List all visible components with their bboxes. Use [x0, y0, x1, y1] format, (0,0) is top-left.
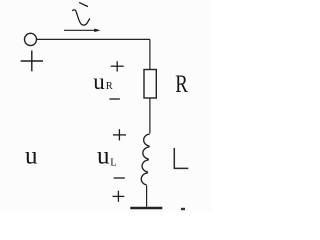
resistor R	[144, 70, 156, 99]
svg-text:u: u	[93, 69, 105, 94]
current direction arrow	[64, 29, 96, 31]
svg-text:u: u	[25, 143, 38, 170]
wire right vertical to resistor	[149, 39, 151, 69]
inductor L coil	[141, 134, 149, 185]
svg-text:u: u	[97, 143, 110, 170]
svg-text:R: R	[175, 69, 188, 97]
wire top horizontal	[37, 38, 150, 40]
source plus polarity	[21, 51, 43, 72]
source terminal circle	[25, 33, 37, 45]
stray mark bottom right	[181, 208, 185, 210]
svg-text:L: L	[110, 157, 116, 168]
plus above uL	[113, 129, 126, 140]
minus below uR	[109, 98, 120, 100]
label L	[174, 148, 188, 169]
svg-text:R: R	[106, 81, 113, 92]
bottom terminal bar	[130, 207, 162, 210]
current label i	[73, 3, 90, 25]
plus bottom	[113, 191, 125, 202]
wire resistor to inductor	[149, 98, 151, 134]
plus above uR	[111, 61, 124, 71]
wire inductor to bottom	[146, 186, 148, 207]
minus below uL	[114, 177, 125, 179]
